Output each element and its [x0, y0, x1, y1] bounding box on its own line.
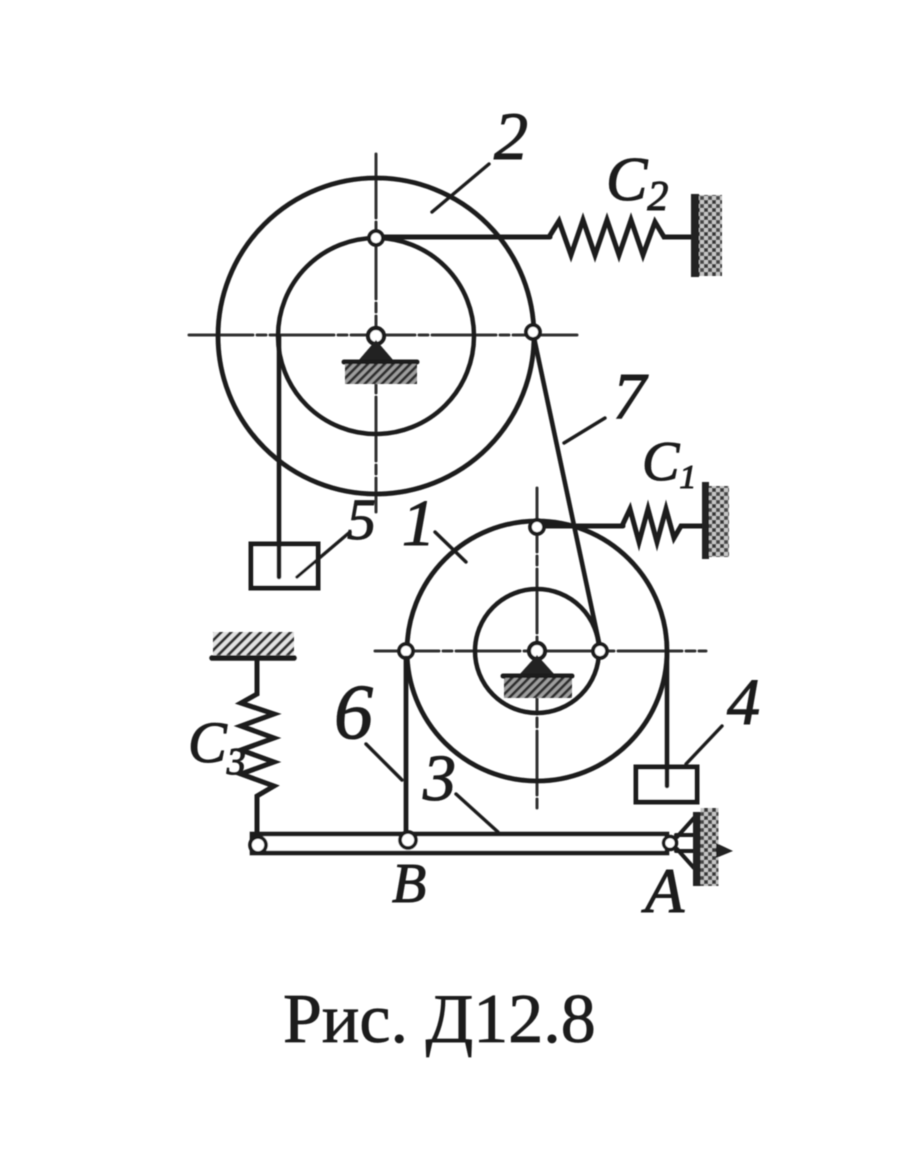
- node rope 7 upper: [526, 325, 540, 339]
- rope pulley 2 to spring C2: [381, 235, 550, 240]
- pivot ground bar pulley 1: [503, 674, 572, 679]
- svg-text:Рис. Д12.8: Рис. Д12.8: [283, 981, 596, 1058]
- svg-text:C1: C1: [642, 431, 696, 496]
- pulley 1 horizontal centerline: [375, 650, 706, 653]
- pulley 1 inner circle: [475, 589, 599, 713]
- spring C2: [549, 220, 692, 255]
- A wall bar: [693, 812, 701, 886]
- pulley 2 outer circle: [218, 178, 534, 494]
- svg-text:4: 4: [727, 666, 760, 739]
- block 5: [251, 544, 318, 588]
- node C2 attach: [369, 231, 383, 245]
- node C1 attach: [530, 520, 544, 534]
- svg-text:C2: C2: [606, 146, 668, 220]
- spring C1: [622, 509, 703, 542]
- A wall arrow: [716, 843, 733, 858]
- pulley 1 vertical centerline: [536, 488, 539, 812]
- spring C3: [241, 660, 274, 836]
- rope pulley 2 to block 5: [277, 336, 282, 577]
- svg-text:6: 6: [334, 668, 373, 755]
- svg-text:B: B: [392, 853, 426, 915]
- label 2: [432, 98, 528, 212]
- C2 wall bar: [691, 194, 699, 277]
- label 6: [334, 668, 402, 780]
- rope 7: [533, 333, 601, 652]
- label 7: [564, 360, 649, 443]
- pin bracket at A: [676, 818, 694, 868]
- pivot ground bar pulley 2: [344, 360, 417, 365]
- node A: [664, 837, 677, 850]
- node rod left end: [250, 837, 266, 853]
- label 5: [297, 487, 376, 577]
- rod 3: [252, 834, 667, 853]
- C1 wall bar: [702, 482, 709, 559]
- label 3: [422, 742, 498, 832]
- pivot hatch pulley 2: [345, 364, 417, 384]
- svg-text:7: 7: [613, 360, 649, 433]
- C3 ceiling line: [212, 655, 294, 661]
- pulley 2 horizontal centerline: [189, 334, 581, 337]
- svg-text:2: 2: [494, 98, 528, 174]
- svg-text:5: 5: [347, 487, 376, 552]
- pulley 2 inner circle: [278, 238, 474, 434]
- label 4: [686, 666, 760, 764]
- rope 6: [404, 658, 409, 834]
- C2 wall hatch: [699, 195, 722, 276]
- pulley 2 vertical centerline: [375, 154, 378, 512]
- block 4: [636, 767, 697, 802]
- pivot hatch pulley 1: [504, 678, 572, 698]
- rope pulley 1 to block 4: [665, 651, 670, 786]
- svg-text:1: 1: [402, 487, 435, 560]
- pulley 1 outer circle: [407, 521, 667, 781]
- pivot pin pulley 2: [358, 328, 394, 361]
- svg-text:3: 3: [422, 742, 456, 815]
- C3 ceiling hatch: [213, 632, 294, 655]
- node rope 7 lower: [593, 644, 607, 658]
- svg-text:C3: C3: [188, 710, 246, 783]
- svg-text:A: A: [641, 855, 685, 926]
- node B: [400, 832, 416, 848]
- node rope 6 attach: [399, 644, 413, 658]
- C1 wall hatch: [709, 486, 729, 557]
- label 1: [402, 487, 466, 562]
- rope to spring C1: [543, 524, 623, 529]
- A wall hatch: [701, 808, 719, 886]
- pivot pin pulley 1: [519, 643, 555, 675]
